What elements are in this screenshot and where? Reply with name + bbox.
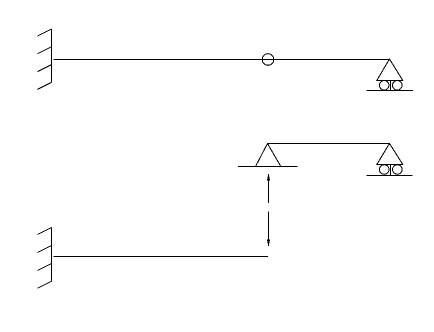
wire beam 3 (cantilever) (54, 256, 269, 258)
fixed support wall (bottom left) (38, 228, 52, 289)
roller support (bottom right) (367, 144, 413, 176)
roller support (top right) (366, 59, 413, 91)
pin support (middle) (238, 144, 298, 167)
arrow up (reaction transfer) (267, 173, 270, 204)
arrow down (load transfer) (267, 212, 270, 248)
wire beam 1 (top beam) (54, 59, 390, 61)
wire beam 2 (suspended span) (268, 143, 390, 145)
fixed support wall (top left) (38, 29, 52, 89)
node hinge circle on beam 1 (262, 54, 274, 66)
